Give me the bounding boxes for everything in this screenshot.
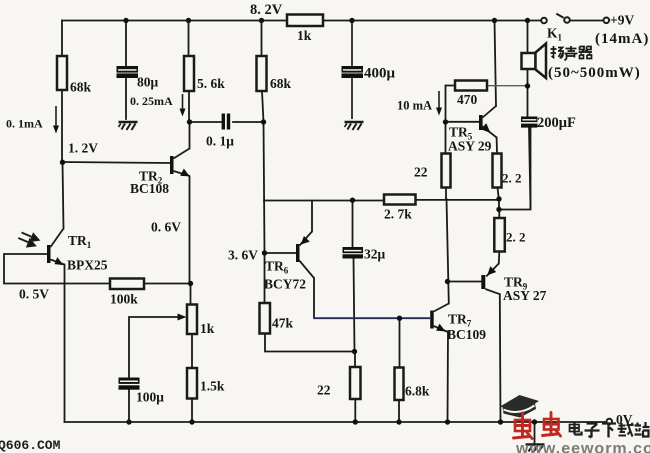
ground under 80u — [119, 122, 138, 130]
svg-text:80μ: 80μ — [137, 75, 159, 90]
resistor 100k (feedback) — [110, 279, 144, 290]
capacitor 100u electrolytic — [119, 378, 140, 390]
wire: 2.2 R11 bottom to TR6 emitter — [498, 252, 501, 264]
wire: TR2 base line from 1.2V node — [63, 162, 171, 163]
junction: TR6 collector at bottom rail — [498, 419, 503, 424]
svg-text:10 mA: 10 mA — [397, 99, 432, 113]
junction: 0.1u / 68k bias — [261, 119, 266, 124]
svg-text:0. 5V: 0. 5V — [19, 287, 49, 302]
capacitor 32u electrolytic — [343, 247, 364, 259]
light arrows into TR1 — [18, 233, 38, 247]
wire: TR6 collector to bottom rail — [499, 294, 502, 422]
junction: TR2 emitter / 100k — [188, 281, 193, 286]
junction: ASY29 collector at top rail — [492, 18, 497, 23]
wire: 47k from 3.6V node down and across to 32u node — [265, 253, 355, 352]
svg-text:0. 1mA: 0. 1mA — [6, 117, 43, 131]
output node junction lower — [496, 207, 501, 212]
svg-text:1. 2V: 1. 2V — [68, 141, 98, 156]
svg-text:+9V: +9V — [610, 13, 634, 28]
junction: speaker at top rail — [525, 18, 530, 23]
svg-text:ASY 27: ASY 27 — [503, 288, 547, 303]
junction: 47k / 32u / 22 — [352, 349, 357, 354]
node 1.2V junction — [60, 160, 65, 165]
capacitor 200uF electrolytic — [521, 117, 538, 128]
svg-text:Q606.COM: Q606.COM — [0, 438, 61, 453]
junction: 80u at top rail — [123, 18, 128, 23]
wire: pot wiper line and 100u branch — [129, 317, 182, 422]
wire: TR2 collector up to 0.1u node — [189, 122, 191, 149]
svg-text:22: 22 — [414, 165, 428, 180]
svg-text:(50~500mW): (50~500mW) — [548, 65, 641, 81]
junction: 400u at top rail — [349, 18, 354, 23]
junction: ASY29 base / 470 / 22 — [443, 119, 448, 124]
svg-text:1.5k: 1.5k — [200, 379, 225, 394]
svg-text:ASY 29: ASY 29 — [448, 139, 492, 154]
junction: 1.5k at bottom rail — [189, 419, 194, 424]
junction: TR4 collector / TR6 base — [445, 279, 450, 284]
junction: 6.8k at bottom rail — [396, 419, 401, 424]
wire: TR4 collector up to output node, TR6 base node — [447, 199, 482, 304]
svg-text:0. 6V: 0. 6V — [151, 220, 181, 235]
wire: TR4 emitter to bottom rail — [447, 332, 450, 422]
wire: ASY29 emitter to 2.2 R10 — [497, 138, 499, 200]
resistor 68k (left bias upper) — [57, 56, 67, 90]
resistor 2.2 (upper) — [493, 154, 502, 188]
watermark text zhan — [635, 422, 650, 437]
svg-text:0. 1μ: 0. 1μ — [206, 134, 234, 149]
junction: 32u at emitter rail — [350, 198, 355, 203]
wire: 5.6k branch from rail to TR2 collector node — [188, 21, 191, 123]
svg-text:2. 2: 2. 2 — [506, 230, 526, 245]
wire: 32u branch top — [353, 200, 355, 352]
junction: TR2 collector / 5.6k / 0.1u — [187, 119, 192, 124]
svg-text:www.eeworm.com: www.eeworm.com — [515, 441, 650, 453]
ground under 400u — [345, 122, 364, 130]
wire: 22 lower branch to bottom rail — [354, 352, 356, 423]
speaker symbol — [522, 44, 547, 79]
potentiometer 1k — [187, 305, 197, 335]
switch K1 contacts and lever — [541, 14, 609, 24]
svg-text:200μF: 200μF — [537, 115, 576, 131]
svg-text:2. 7k: 2. 7k — [384, 207, 412, 222]
wire: bottom 0V rail — [65, 421, 607, 423]
wire: 80u cap branch from rail to ground — [125, 21, 127, 120]
terminal circle 0V bottom right — [607, 419, 613, 425]
wire: TR1 emitter down to bottom rail — [64, 265, 66, 423]
output node junction upper — [496, 196, 501, 201]
junction: speaker / 470 / 200uF — [525, 83, 530, 88]
svg-text:1k: 1k — [297, 28, 312, 43]
wire: TR3 base line from 3.6V node — [265, 252, 297, 254]
wire: speaker branch from rail — [528, 21, 531, 209]
wire: TR3 emitter up to rail — [311, 201, 313, 232]
resistor 1.5k — [187, 368, 197, 399]
svg-text:8. 2V: 8. 2V — [250, 2, 283, 18]
resistor 5.6k (TR2 collector load) — [184, 56, 194, 91]
svg-text:68k: 68k — [70, 80, 92, 95]
resistor 22 (lower) — [350, 367, 361, 399]
transistor TR2 BC108 — [170, 149, 190, 177]
svg-text:32μ: 32μ — [364, 247, 386, 262]
wire: 0.1u coupling cap leads — [190, 121, 264, 123]
watermark graduation cap logo — [500, 395, 539, 418]
capacitor 400u electrolytic — [342, 21, 364, 120]
junction: 100u at bottom rail — [126, 419, 131, 424]
wire: left rail top to 68k R1 — [61, 21, 63, 57]
svg-text:(14mA): (14mA) — [595, 31, 649, 47]
wire: 470 left lead down to ASY29 base node and 22 — [446, 86, 456, 200]
svg-text:47k: 47k — [272, 316, 294, 331]
wire: TR2 emitter down to 0.6V and 100k node — [190, 177, 191, 305]
wire: pot bottom to 1.5k to bottom rail — [191, 334, 193, 422]
svg-text:100μ: 100μ — [136, 390, 164, 405]
resistor 22 (ASY29 base) — [442, 154, 451, 188]
junction: TR4 base / 6.8k — [397, 316, 402, 321]
current arrow 0.25mA beside 5.6k — [180, 94, 186, 117]
node 3.6V junction (TR3 base) — [262, 250, 267, 255]
watermark red character chong 2 — [543, 413, 561, 437]
capacitor 80u electrolytic — [117, 66, 139, 78]
svg-text:BC108: BC108 — [130, 181, 169, 196]
transistor TR3 BCY72 (PNP) — [296, 232, 314, 279]
wire: TR3 emitter rail with 2.7k — [264, 199, 499, 202]
transistor TR4 BC109 — [430, 304, 449, 333]
wire: output node to 200uF and 2.2 R11 — [499, 128, 531, 219]
svg-text:1k: 1k — [200, 321, 215, 336]
svg-text:5. 6k: 5. 6k — [197, 76, 225, 91]
svg-text:2. 2: 2. 2 — [502, 171, 522, 186]
junction: 5.6k at top rail — [186, 18, 191, 23]
wire: 68k R4 branch from rail down to 3.6V node — [262, 21, 265, 254]
svg-text:BCY72: BCY72 — [264, 277, 306, 292]
svg-text:100k: 100k — [110, 292, 138, 307]
svg-text:68k: 68k — [270, 76, 292, 91]
current arrow 0.1mA at left rail — [53, 106, 59, 134]
current arrow 10mA beside 470 feed — [436, 91, 442, 116]
resistor 68k (TR3 base bias) — [257, 56, 267, 91]
transistor TR6 ASY27 (PNP) — [481, 264, 500, 295]
wire: TR3 collector to TR4 base (blue tinted) — [314, 317, 431, 319]
svg-text:400μ: 400μ — [364, 66, 396, 82]
capacitor 0.1u coupling — [222, 114, 231, 130]
transistor TR5 ASY29 — [479, 106, 497, 138]
svg-text:3. 6V: 3. 6V — [228, 248, 258, 263]
watermark text zai — [618, 423, 634, 437]
junction: TR4 emitter at bottom rail — [445, 419, 450, 424]
svg-text:22: 22 — [317, 383, 331, 398]
resistor 470 — [455, 81, 487, 91]
wire: ground stub near watermark — [534, 422, 536, 444]
resistor 2.7k — [384, 195, 416, 205]
wire: TR3 collector down — [313, 278, 315, 318]
junction: 68k bias at top rail — [259, 18, 264, 23]
speaker label yang-sheng-qi (loudspeaker) — [551, 46, 593, 61]
transistor TR1 BPX25 phototransistor — [47, 229, 64, 265]
watermark text zi — [585, 424, 600, 438]
resistor 2.2 (lower) — [494, 218, 505, 252]
wire: top supply rail — [62, 20, 604, 22]
watermark red character chong 1 — [514, 413, 533, 439]
svg-text:BC109: BC109 — [447, 327, 486, 342]
svg-text:470: 470 — [457, 92, 478, 107]
wire: 6.8k from TR4 base node to bottom rail — [398, 318, 401, 422]
svg-text:0. 25mA: 0. 25mA — [130, 94, 173, 108]
svg-text:6.8k: 6.8k — [405, 384, 430, 399]
wire: ASY29 base line — [446, 121, 480, 123]
potentiometer wiper arrow — [178, 314, 187, 321]
wire: TR1 base loop left and 0.5V line — [4, 254, 191, 284]
svg-text:BPX25: BPX25 — [67, 258, 108, 273]
resistor 1k (supply filter, in rail) — [287, 15, 323, 27]
resistor 6.8k — [395, 368, 404, 401]
wire: 68k bottom to 1.2V node to TR1 collector — [62, 90, 64, 229]
wire: ASY29 collector up to top rail — [495, 21, 497, 107]
watermark text xia — [602, 424, 616, 438]
ground at bottom near watermark — [526, 445, 545, 453]
wire: 470 to speaker junction (faded) — [487, 85, 528, 87]
junction: 22 at bottom rail — [353, 419, 358, 424]
watermark text dian (electron) — [570, 422, 582, 435]
resistor 47k — [260, 303, 271, 334]
junction: ground stub at bottom rail — [532, 419, 537, 424]
